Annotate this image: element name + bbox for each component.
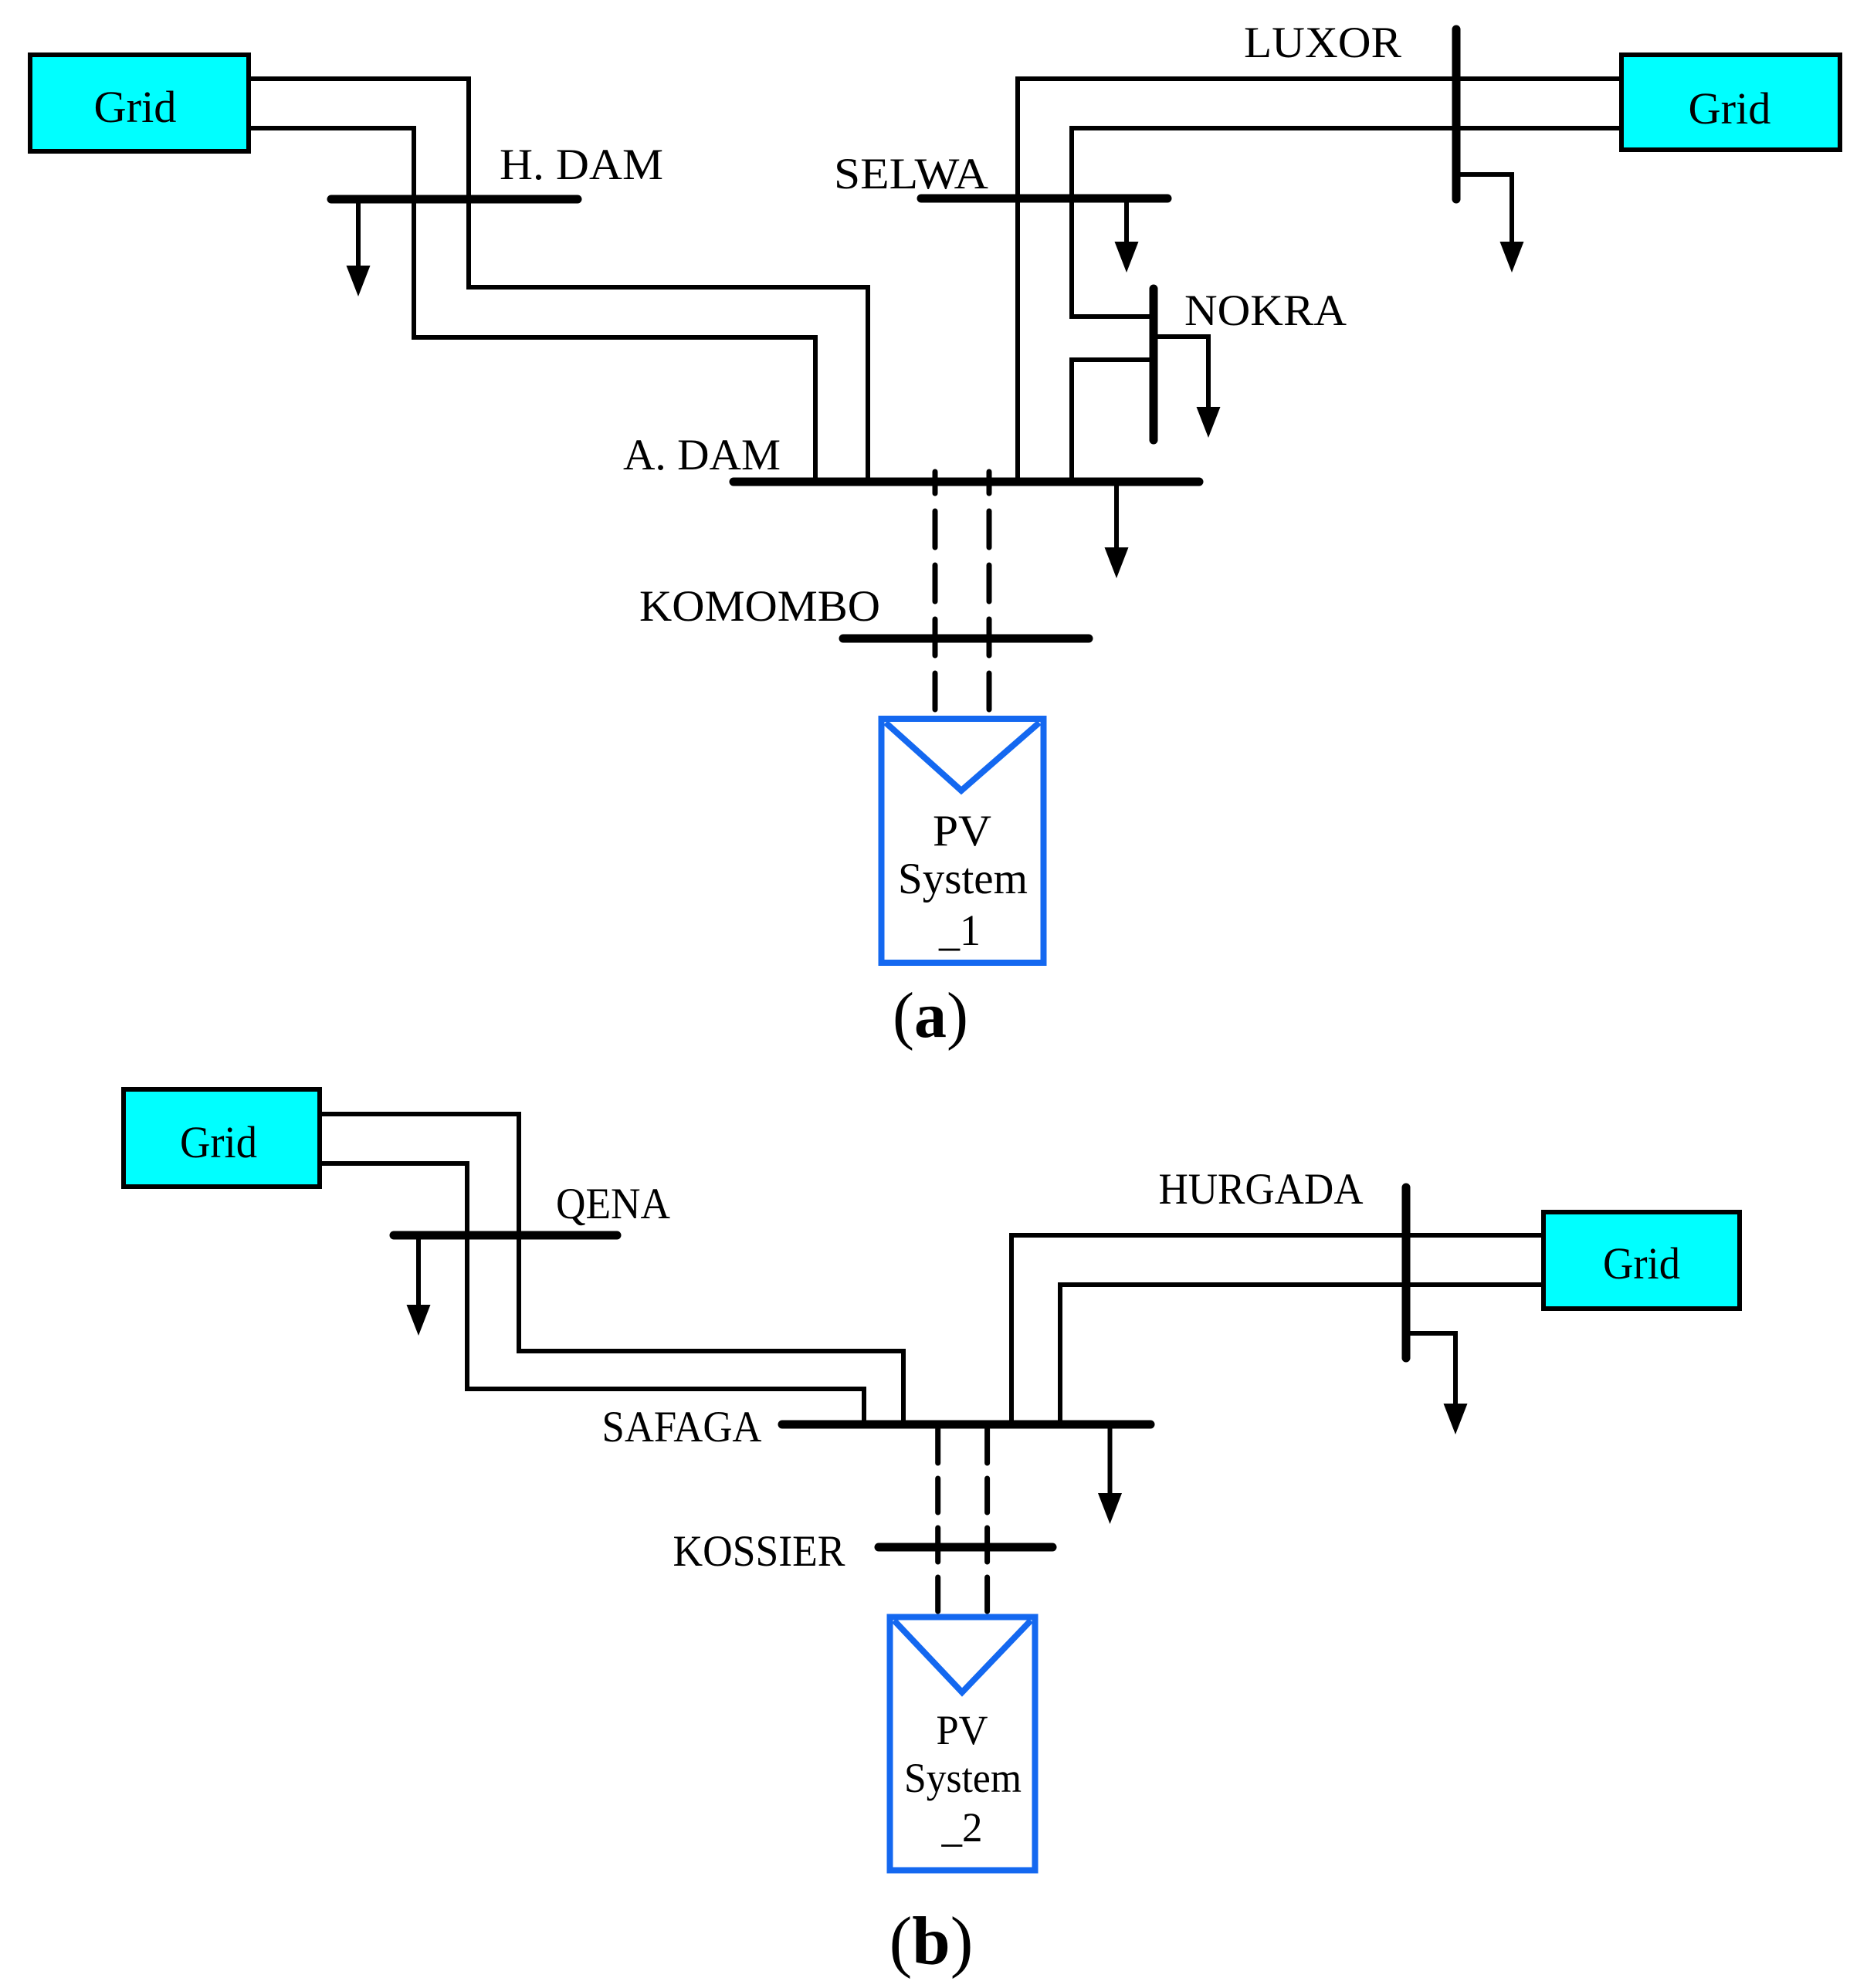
wire NOKRA to A.DAM [1072,360,1152,479]
wire G4 to SAFAGA circuit 2 [1060,1285,1543,1422]
grid source G4 (right) [1543,1212,1740,1309]
svg-text:SAFAGA: SAFAGA [602,1403,762,1451]
grid source G2 (top-right) [1621,55,1840,150]
svg-text:H. DAM: H. DAM [500,141,663,189]
PV system 2 panel chevron [894,1621,1031,1692]
svg-text:Grid: Grid [1603,1238,1680,1289]
bus H. DAM [331,195,578,204]
load arrow at H. DAM [347,199,371,296]
svg-text:_1: _1 [938,906,981,955]
load arrow at SELWA [1115,198,1139,273]
grid source G3 (left) [124,1089,320,1187]
bus A. DAM [734,478,1199,486]
wire G3 to SAFAGA circuit 1 [320,1114,903,1422]
bus KOSSIER [879,1543,1052,1552]
svg-text:System: System [904,1755,1022,1801]
svg-text:HURGADA: HURGADA [1159,1165,1364,1214]
svg-text:SELWA: SELWA [834,150,988,198]
tie line SAFAGA to KOSSIER dashed 2 [984,1429,990,1614]
PV system 1 box [882,719,1044,963]
bus LUXOR (vertical) [1452,29,1461,199]
wire G4 to SAFAGA circuit 1 [1011,1235,1543,1422]
svg-text:PV: PV [933,807,991,855]
load arrow at QENA [407,1235,431,1336]
wire G1 to A.DAM circuit 1 [249,79,868,479]
grid source G1 (top-left) [30,55,249,151]
svg-text:A. DAM: A. DAM [623,431,781,479]
load arrow at HURGADA [1408,1333,1468,1434]
bus SELWA [921,195,1167,203]
svg-text:QENA: QENA [556,1180,670,1228]
tie line SAFAGA to KOSSIER dashed 1 [935,1429,940,1614]
svg-text:Grid: Grid [94,82,177,132]
svg-text:KOMOMBO: KOMOMBO [639,582,880,631]
tie line A.DAM to KOMOMBO dashed 2 [987,472,992,716]
svg-text:LUXOR: LUXOR [1244,19,1401,67]
wire G3 to SAFAGA circuit 2 [320,1163,864,1422]
PV system 1 panel chevron [886,723,1039,791]
svg-text:KOSSIER: KOSSIER [673,1527,845,1576]
load arrow at SAFAGA [1098,1424,1122,1524]
tie line A.DAM to KOMOMBO dashed 1 [933,472,938,716]
svg-text:NOKRA: NOKRA [1184,286,1347,335]
PV system 2 label [904,1707,1022,1851]
svg-text:System: System [898,855,1028,903]
bus HURGADA (vertical) [1402,1187,1411,1358]
svg-text:Grid: Grid [1689,83,1771,134]
wire G2 to A.DAM [1018,79,1621,479]
svg-text:PV: PV [937,1707,988,1753]
bus SAFAGA [782,1421,1150,1429]
svg-text:_2: _2 [941,1804,983,1851]
bus NOKRA (vertical) [1150,289,1158,440]
load arrow at LUXOR [1456,174,1524,273]
svg-text:(a): (a) [893,980,968,1052]
wire G1 to A.DAM circuit 2 [249,128,815,479]
bus QENA [394,1231,617,1240]
load arrow at NOKRA [1155,337,1221,438]
wire G2 to NOKRA [1072,128,1621,317]
bus KOMOMBO [843,635,1089,643]
PV system 1 label [898,807,1028,955]
load arrow at A. DAM [1105,482,1129,578]
PV system 2 box [890,1617,1035,1871]
svg-text:Grid: Grid [180,1117,257,1167]
svg-text:(b): (b) [889,1904,974,1980]
